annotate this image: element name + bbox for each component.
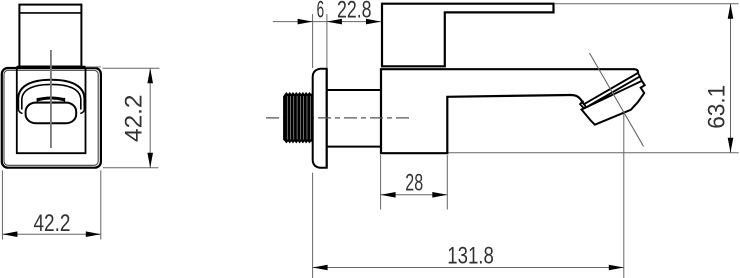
handle (side view) [382,4,554,67]
extension line bottom (from body bottom) [449,152,739,154]
extension line left (below flange) [312,173,314,278]
extension line top [103,67,160,69]
inner square recess [17,67,86,154]
handle cap band line [19,12,81,14]
extension line flange left [312,14,314,68]
body + spout outline [381,69,638,153]
dimension line [2,233,100,235]
dimension line [149,68,151,167]
body outer rounded square [2,68,101,168]
body inner offset rounded square [4,70,98,165]
svg-text:42.2: 42.2 [122,95,148,143]
arrow 63.1 up [728,4,734,19]
aerator collar step [580,101,584,109]
svg-text:42.2: 42.2 [34,211,71,237]
arrow 22.8 right [366,19,381,25]
aerator plate (front) [37,99,64,103]
arrow 22.8 left [327,19,342,25]
svg-text:22.8: 22.8 [337,0,372,24]
arrow right [86,231,101,237]
arrow 63.1 down [728,138,734,153]
dimension line [273,21,381,23]
dimension line [313,267,624,269]
arrow up [147,68,153,83]
dimension line [381,194,448,196]
inner square top line continuation [86,66,102,68]
aerator band 1 (top face) [584,73,640,107]
svg-text:28: 28 [405,170,423,196]
aerator tip main block [582,81,645,125]
aerator band 2 [582,77,642,110]
dome side foot left [18,110,22,114]
flange (escutcheon) [313,69,327,168]
handle (front view) [19,5,81,67]
arrow 6 (outside, pointing right) [298,19,313,25]
dimension line [730,4,732,153]
spout barrel (front) [26,103,77,124]
extension line right (from tip) [623,114,625,278]
diagonal centerline of tip [590,53,644,146]
arrow 28 right [432,192,447,198]
dome side foot right [80,110,84,114]
extension line right [100,170,102,239]
svg-text:6: 6 [317,0,325,24]
extension line left [380,155,382,210]
extension line right [446,155,448,210]
svg-text:63.1: 63.1 [705,85,731,129]
arrow 28 left [381,192,396,198]
stem bottom line [327,146,382,148]
flange right edge [326,69,328,168]
extension line bottom [103,167,159,169]
inner square top edge [17,66,86,68]
arrow down [147,153,153,168]
arrow left [2,231,17,237]
arrow 131.8 left [313,265,328,271]
arrow 131.8 right [609,265,624,271]
horizontal centerline [266,117,411,119]
aerator plate curved top [38,98,65,100]
spout dome outer cap [18,80,84,110]
centerline front view [50,50,52,148]
extension line flange right [326,14,328,68]
spout dome inner cap [22,84,81,109]
extension line top (from lever) [555,3,739,5]
threaded inlet nipple [284,93,313,143]
stem top line [327,89,382,91]
extension line left [1,170,3,239]
svg-text:131.8: 131.8 [447,244,494,270]
